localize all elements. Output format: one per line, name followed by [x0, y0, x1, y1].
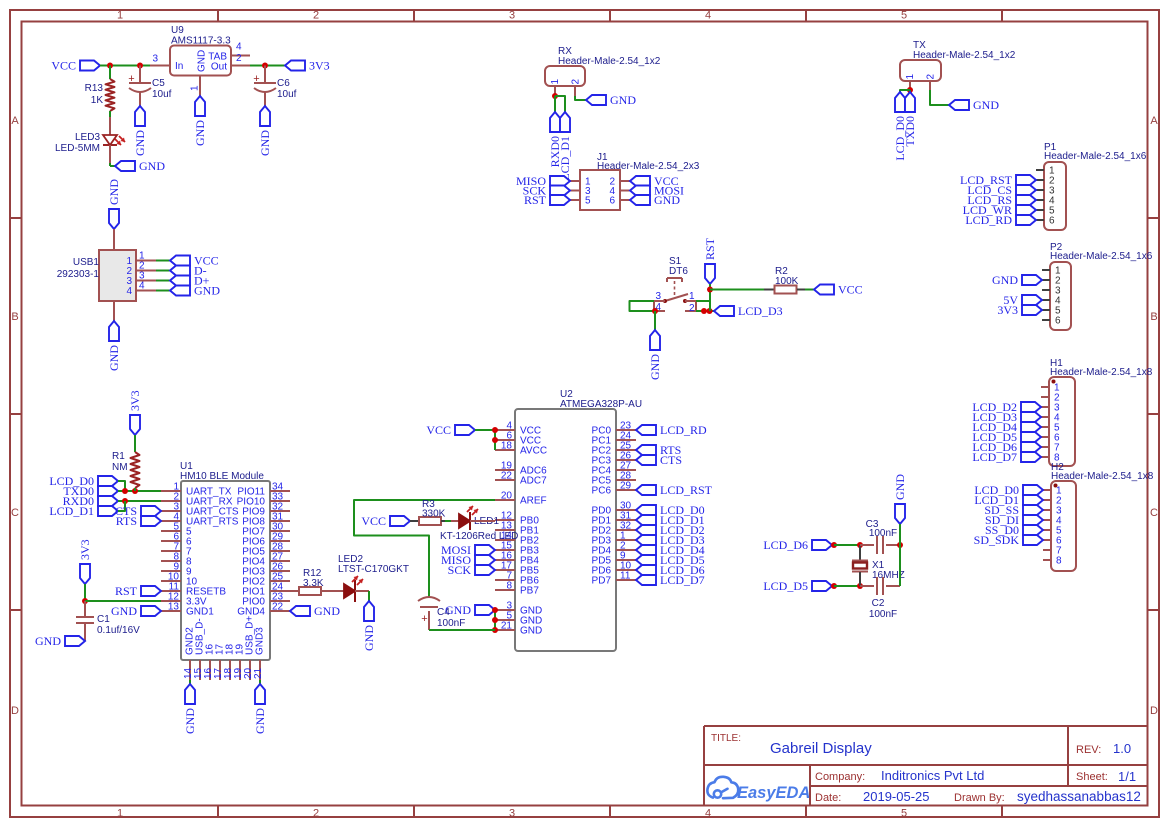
svg-text:ADC7: ADC7 [520, 476, 547, 487]
svg-text:GND: GND [258, 130, 272, 156]
svg-text:1: 1 [117, 10, 123, 22]
svg-text:+: + [421, 613, 427, 625]
svg-text:292303-1: 292303-1 [57, 269, 100, 280]
svg-text:100nF: 100nF [869, 528, 897, 539]
svg-text:RST: RST [524, 193, 547, 207]
svg-text:Inditronics Pvt Ltd: Inditronics Pvt Ltd [881, 768, 984, 783]
svg-text:Header-Male-2.54_1x6: Header-Male-2.54_1x6 [1050, 251, 1153, 262]
svg-text:3.3K: 3.3K [303, 578, 324, 589]
svg-text:GND: GND [111, 604, 137, 618]
svg-text:Out: Out [211, 62, 227, 73]
svg-text:10uf: 10uf [152, 89, 172, 100]
svg-text:1K: 1K [91, 95, 104, 106]
svg-text:U9: U9 [171, 25, 184, 36]
svg-text:GND: GND [139, 159, 165, 173]
svg-text:RST: RST [115, 584, 138, 598]
svg-text:4: 4 [139, 281, 145, 292]
svg-text:2019-05-25: 2019-05-25 [863, 789, 930, 804]
svg-text:GND: GND [610, 93, 636, 107]
svg-text:100K: 100K [775, 276, 799, 287]
svg-text:2: 2 [313, 808, 319, 820]
svg-text:21: 21 [253, 667, 264, 679]
svg-text:TITLE:: TITLE: [711, 733, 741, 744]
svg-text:VCC: VCC [361, 514, 386, 528]
svg-text:LED-5MM: LED-5MM [55, 143, 100, 154]
svg-text:B: B [1150, 311, 1157, 323]
svg-text:Header-Male-2.54_1x6: Header-Male-2.54_1x6 [1044, 151, 1147, 162]
svg-text:13: 13 [168, 602, 180, 613]
svg-text:C2: C2 [872, 598, 885, 609]
svg-text:Header-Male-2.54_1x8: Header-Male-2.54_1x8 [1050, 367, 1153, 378]
svg-text:GND: GND [893, 474, 907, 500]
svg-text:C1: C1 [97, 614, 110, 625]
svg-text:GND: GND [648, 354, 662, 380]
svg-text:RST: RST [703, 237, 717, 260]
svg-text:29: 29 [620, 481, 632, 492]
svg-text:3: 3 [655, 291, 661, 302]
svg-text:In: In [175, 61, 183, 72]
svg-text:Header-Male-2.54_2x3: Header-Male-2.54_2x3 [597, 161, 700, 172]
svg-text:A: A [11, 115, 19, 127]
svg-text:1: 1 [190, 85, 201, 91]
svg-text:2: 2 [236, 53, 242, 64]
svg-text:A: A [1150, 115, 1158, 127]
svg-text:1/1: 1/1 [1118, 769, 1136, 784]
svg-text:GND: GND [253, 708, 267, 734]
svg-text:CTS: CTS [660, 453, 682, 467]
svg-text:2: 2 [571, 79, 582, 85]
svg-text:GND: GND [183, 708, 197, 734]
svg-text:GND: GND [992, 273, 1018, 287]
svg-text:330K: 330K [422, 509, 446, 520]
svg-text:3V3: 3V3 [128, 390, 142, 411]
svg-text:1: 1 [550, 79, 561, 85]
svg-text:C4: C4 [437, 607, 450, 618]
svg-text:HM10 BLE Module: HM10 BLE Module [180, 471, 264, 482]
svg-text:Drawn By:: Drawn By: [954, 792, 1005, 804]
svg-text:LCD_D7: LCD_D7 [972, 450, 1017, 464]
svg-text:LCD_D3: LCD_D3 [738, 304, 783, 318]
svg-text:3: 3 [152, 54, 158, 65]
svg-text:3: 3 [509, 10, 515, 22]
svg-text:GND: GND [197, 50, 208, 72]
svg-text:GND: GND [107, 345, 121, 371]
svg-text:+: + [128, 73, 134, 85]
svg-text:AREF: AREF [520, 496, 547, 507]
svg-text:AVCC: AVCC [520, 446, 547, 457]
svg-text:Sheet:: Sheet: [1076, 771, 1108, 783]
svg-text:0.1uf/16V: 0.1uf/16V [97, 625, 140, 636]
svg-text:UART_RTS: UART_RTS [186, 517, 239, 528]
svg-text:GND: GND [314, 604, 340, 618]
svg-text:DT6: DT6 [669, 266, 688, 277]
svg-text:D: D [11, 705, 19, 717]
svg-text:18: 18 [501, 441, 513, 452]
svg-text:10uf: 10uf [277, 89, 297, 100]
svg-text:8: 8 [1056, 556, 1062, 567]
svg-text:C: C [1150, 507, 1158, 519]
svg-text:2: 2 [689, 303, 695, 314]
svg-text:3V3: 3V3 [309, 59, 330, 73]
svg-text:LCD_D1: LCD_D1 [558, 136, 572, 181]
svg-text:4: 4 [126, 286, 132, 297]
svg-text:SD_SDK: SD_SDK [974, 533, 1020, 547]
svg-text:C5: C5 [152, 78, 165, 89]
svg-text:GND3: GND3 [255, 627, 266, 655]
svg-text:GND: GND [107, 179, 121, 205]
svg-text:GND1: GND1 [186, 607, 214, 618]
svg-text:LCD_RD: LCD_RD [660, 423, 707, 437]
svg-text:Header-Male-2.54_1x2: Header-Male-2.54_1x2 [558, 56, 661, 67]
svg-text:LCD_D7: LCD_D7 [660, 573, 705, 587]
svg-text:VCC: VCC [51, 59, 76, 73]
svg-text:GND: GND [194, 284, 220, 298]
svg-text:2: 2 [313, 10, 319, 22]
svg-text:B: B [11, 311, 18, 323]
svg-text:1: 1 [689, 291, 695, 302]
svg-text:R1: R1 [112, 451, 125, 462]
svg-text:GND: GND [654, 193, 680, 207]
svg-text:3V3: 3V3 [78, 539, 92, 560]
svg-text:RTS: RTS [116, 514, 137, 528]
svg-text:5: 5 [901, 10, 907, 22]
svg-text:VCC: VCC [426, 423, 451, 437]
svg-text:ATMEGA328P-AU: ATMEGA328P-AU [560, 399, 642, 410]
svg-text:22: 22 [501, 471, 513, 482]
svg-text:LCD_D5: LCD_D5 [763, 579, 808, 593]
svg-text:GND: GND [133, 130, 147, 156]
svg-text:PC6: PC6 [592, 486, 612, 497]
svg-text:1: 1 [905, 74, 916, 80]
svg-text:1: 1 [117, 808, 123, 820]
svg-text:4: 4 [236, 42, 242, 53]
svg-text:6: 6 [1055, 316, 1061, 327]
svg-text:6: 6 [1049, 216, 1055, 227]
svg-text:REV:: REV: [1076, 744, 1101, 756]
svg-text:Header-Male-2.54_1x2: Header-Male-2.54_1x2 [913, 50, 1016, 61]
svg-text:20: 20 [501, 491, 513, 502]
svg-text:8: 8 [506, 581, 512, 592]
svg-text:6: 6 [609, 196, 615, 207]
svg-text:AMS1117-3.3: AMS1117-3.3 [171, 36, 231, 47]
svg-text:4: 4 [705, 808, 711, 820]
svg-text:21: 21 [501, 621, 513, 632]
svg-text:Gabreil Display: Gabreil Display [770, 740, 872, 757]
svg-text:+: + [253, 73, 259, 85]
svg-text:100nF: 100nF [437, 618, 465, 629]
svg-text:C6: C6 [277, 78, 290, 89]
svg-text:GND: GND [35, 634, 61, 648]
svg-text:PB7: PB7 [520, 586, 539, 597]
svg-text:2: 2 [926, 74, 937, 80]
svg-text:5: 5 [585, 196, 591, 207]
svg-text:11: 11 [620, 571, 631, 582]
svg-text:Company:: Company: [815, 771, 865, 783]
svg-text:GND: GND [973, 98, 999, 112]
svg-text:VCC: VCC [838, 283, 863, 297]
svg-text:LCD_D6: LCD_D6 [763, 538, 808, 552]
svg-text:LCD_D1: LCD_D1 [49, 504, 94, 518]
svg-text:Date:: Date: [815, 792, 841, 804]
svg-text:LTST-C170GKT: LTST-C170GKT [338, 564, 409, 575]
svg-text:5: 5 [901, 808, 907, 820]
svg-text:EasyEDA: EasyEDA [737, 784, 810, 802]
svg-text:NM: NM [112, 462, 128, 473]
svg-text:R13: R13 [85, 83, 104, 94]
svg-text:USB1: USB1 [73, 257, 100, 268]
svg-text:C: C [11, 507, 19, 519]
svg-text:22: 22 [272, 602, 284, 613]
svg-text:LCD_RD: LCD_RD [965, 213, 1012, 227]
svg-text:TXD0: TXD0 [903, 116, 917, 147]
svg-text:D: D [1150, 705, 1158, 717]
svg-text:GND: GND [362, 625, 376, 651]
svg-text:Header-Male-2.54_1x8: Header-Male-2.54_1x8 [1051, 471, 1154, 482]
svg-text:GND: GND [520, 626, 542, 637]
svg-text:GND: GND [193, 120, 207, 146]
svg-text:PD7: PD7 [592, 576, 612, 587]
svg-text:LCD_RST: LCD_RST [660, 483, 713, 497]
svg-text:SCK: SCK [448, 563, 472, 577]
svg-text:3V3: 3V3 [997, 303, 1018, 317]
svg-text:1.0: 1.0 [1113, 741, 1131, 756]
svg-text:syedhassanabbas12: syedhassanabbas12 [1017, 789, 1141, 804]
svg-text:3: 3 [509, 808, 515, 820]
svg-text:KT-1206Red LED: KT-1206Red LED [440, 531, 518, 542]
svg-text:100nF: 100nF [869, 609, 897, 620]
svg-text:LED3: LED3 [75, 132, 100, 143]
svg-text:4: 4 [705, 10, 711, 22]
